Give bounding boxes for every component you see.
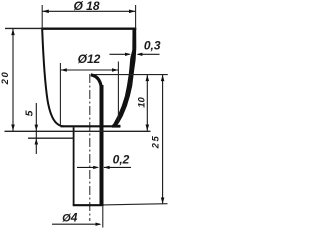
flange top edge [61, 125, 121, 127]
right wall section [111, 28, 136, 127]
svg-text:0,2: 0,2 [113, 153, 130, 167]
svg-text:5: 5 [24, 110, 36, 116]
Ø18 dimension line [42, 10, 135, 12]
cup top edge [5, 27, 42, 29]
Ø18 left extension [41, 5, 43, 30]
Ø18 right extension [135, 5, 137, 30]
0,2 left arrow [77, 166, 97, 168]
svg-text:Ø12: Ø12 [78, 52, 101, 66]
5 dimension line [35, 103, 37, 154]
tube bottom edge [73, 204, 104, 206]
Ø12 right extension [117, 62, 119, 123]
0,2 right tail [104, 166, 131, 168]
svg-text:0,3: 0,3 [144, 39, 161, 53]
tube right wall section [100, 85, 104, 206]
svg-text:20: 20 [0, 71, 11, 86]
tube left wall [73, 127, 75, 205]
svg-text:Ø 18: Ø 18 [73, 0, 99, 13]
Ø4 leader line [52, 223, 100, 225]
washer bottom line [28, 137, 74, 139]
0,3 leader left arrow [110, 53, 130, 55]
0,3 leader right arrow [138, 53, 160, 55]
Ø12 left extension [59, 63, 61, 126]
Ø4 right extension [102, 206, 104, 227]
svg-text:25: 25 [151, 135, 162, 150]
left wall outline [42, 30, 63, 127]
20 dimension line [12, 29, 14, 131]
Ø12 dimension line [61, 69, 119, 71]
svg-text:Ø4: Ø4 [62, 211, 78, 225]
tube bottom extension line [103, 204, 168, 205]
tube dome top section [91, 75, 102, 88]
flange bottom / extension line [5, 130, 151, 132]
centerline [89, 74, 91, 221]
10 dimension line [146, 75, 148, 131]
10/25 top extension line [93, 74, 168, 76]
25 dimension line [162, 75, 164, 204]
svg-text:10: 10 [136, 97, 147, 108]
